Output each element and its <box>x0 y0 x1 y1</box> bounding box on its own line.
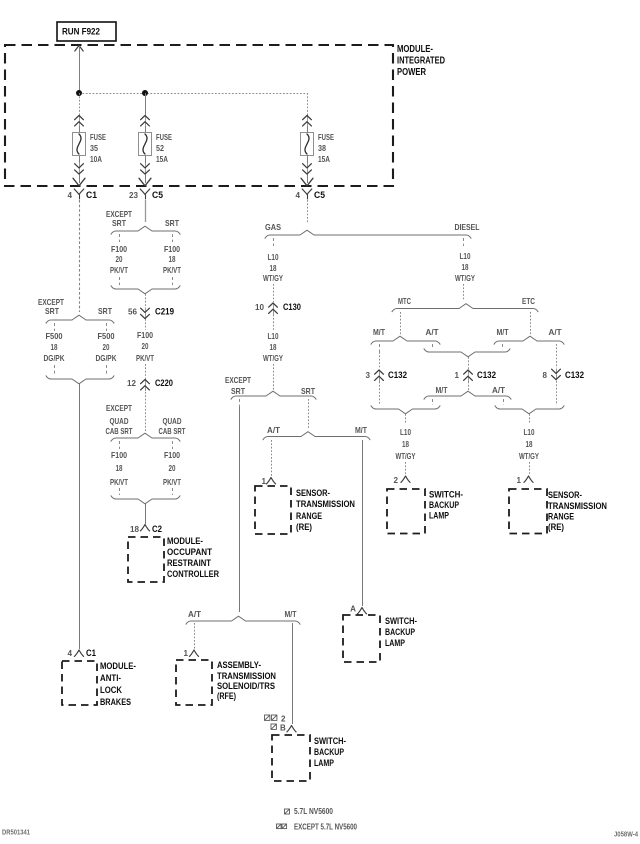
svg-text:OCCUPANT: OCCUPANT <box>167 547 212 558</box>
svg-text:4: 4 <box>295 191 300 200</box>
svg-text:15A: 15A <box>156 155 168 164</box>
svg-text:SRT: SRT <box>98 307 112 316</box>
svg-text:A/T: A/T <box>188 610 201 619</box>
svg-text:C132: C132 <box>477 370 496 381</box>
svg-text:BACKUP: BACKUP <box>429 500 459 511</box>
svg-text:MODULE-: MODULE- <box>167 536 203 547</box>
svg-text:52: 52 <box>156 144 164 153</box>
svg-text:LOCK: LOCK <box>100 685 122 696</box>
svg-text:18: 18 <box>526 440 533 449</box>
svg-text:F500: F500 <box>98 332 115 341</box>
svg-text:56: 56 <box>128 308 138 317</box>
svg-text:L10: L10 <box>460 252 471 261</box>
svg-text:M/T: M/T <box>355 426 367 435</box>
svg-text:10A: 10A <box>90 155 102 164</box>
svg-text:SRT: SRT <box>165 219 179 228</box>
svg-text:PK/VT: PK/VT <box>163 478 181 487</box>
svg-text:ASSEMBLY-: ASSEMBLY- <box>217 660 261 671</box>
svg-text:18: 18 <box>462 263 469 272</box>
svg-text:3: 3 <box>365 371 370 380</box>
svg-text:LAMP: LAMP <box>314 758 334 769</box>
svg-text:SRT: SRT <box>301 387 315 396</box>
svg-text:RANGE: RANGE <box>548 512 574 523</box>
svg-text:18: 18 <box>169 255 176 264</box>
svg-text:F500: F500 <box>46 332 63 341</box>
svg-text:20: 20 <box>103 343 110 352</box>
svg-text:SRT: SRT <box>112 219 126 228</box>
svg-text:TRANSMISSION: TRANSMISSION <box>548 501 607 512</box>
svg-text:4: 4 <box>67 191 72 200</box>
svg-text:20: 20 <box>142 342 149 351</box>
svg-text:FUSE: FUSE <box>318 133 334 142</box>
svg-text:L10: L10 <box>268 253 279 262</box>
svg-text:20: 20 <box>169 464 176 473</box>
svg-text:WT/GY: WT/GY <box>519 452 539 461</box>
svg-text:SRT: SRT <box>45 307 59 316</box>
svg-text:B: B <box>280 724 286 733</box>
svg-text:SWITCH-: SWITCH- <box>429 490 463 501</box>
svg-text:C2: C2 <box>152 524 162 535</box>
svg-text:EXCEPT: EXCEPT <box>225 376 251 385</box>
svg-text:DG/PK: DG/PK <box>44 354 65 363</box>
svg-text:MODULE-: MODULE- <box>100 661 136 672</box>
svg-text:2: 2 <box>393 476 398 485</box>
svg-text:WT/GY: WT/GY <box>263 274 283 283</box>
svg-text:RANGE: RANGE <box>296 511 322 522</box>
svg-text:A/T: A/T <box>492 386 505 395</box>
svg-text:ANTI-: ANTI- <box>100 673 121 684</box>
svg-text:DR501341: DR501341 <box>2 830 30 837</box>
svg-text:12: 12 <box>127 379 137 388</box>
svg-text:A/T: A/T <box>426 328 439 337</box>
svg-text:10: 10 <box>255 303 265 312</box>
svg-text:20: 20 <box>116 255 123 264</box>
svg-text:LAMP: LAMP <box>429 511 449 522</box>
svg-text:2: 2 <box>281 715 286 724</box>
svg-text:EXCEPT: EXCEPT <box>106 210 132 219</box>
svg-text:FUSE: FUSE <box>90 133 106 142</box>
svg-text:BACKUP: BACKUP <box>385 627 415 638</box>
svg-text:ETC: ETC <box>522 297 535 306</box>
svg-text:1: 1 <box>516 476 521 485</box>
svg-text:SWITCH-: SWITCH- <box>314 736 346 747</box>
svg-text:RUN F922: RUN F922 <box>62 27 100 37</box>
svg-text:L10: L10 <box>400 428 411 437</box>
svg-text:C1: C1 <box>86 648 97 659</box>
svg-text:M/T: M/T <box>436 386 448 395</box>
svg-text:(RE): (RE) <box>548 522 564 533</box>
svg-text:C5: C5 <box>314 190 326 201</box>
svg-text:A/T: A/T <box>549 328 562 337</box>
svg-text:5.7L NV5600: 5.7L NV5600 <box>294 807 333 816</box>
svg-text:18: 18 <box>116 464 123 473</box>
svg-text:GAS: GAS <box>265 223 282 232</box>
svg-text:QUAD: QUAD <box>110 417 129 426</box>
svg-text:F100: F100 <box>164 451 180 460</box>
svg-text:A: A <box>350 605 356 614</box>
svg-text:C132: C132 <box>565 370 584 381</box>
svg-text:SRT: SRT <box>231 387 245 396</box>
svg-text:1: 1 <box>261 477 266 486</box>
svg-text:MODULE-: MODULE- <box>397 44 433 55</box>
svg-text:WT/GY: WT/GY <box>455 274 475 283</box>
svg-text:FUSE: FUSE <box>156 133 172 142</box>
svg-text:LAMP: LAMP <box>385 638 405 649</box>
svg-text:18: 18 <box>270 264 277 273</box>
svg-text:18: 18 <box>270 343 277 352</box>
svg-text:EXCEPT 5.7L NV5600: EXCEPT 5.7L NV5600 <box>294 823 357 832</box>
svg-text:QUAD: QUAD <box>163 417 182 426</box>
svg-text:CAB SRT: CAB SRT <box>106 427 133 436</box>
svg-text:WT/GY: WT/GY <box>263 354 283 363</box>
svg-text:DIESEL: DIESEL <box>455 223 480 232</box>
svg-text:TRANSMISSION: TRANSMISSION <box>296 499 355 510</box>
svg-text:4: 4 <box>67 649 72 658</box>
svg-text:C220: C220 <box>155 378 173 389</box>
svg-text:15A: 15A <box>318 155 330 164</box>
svg-text:INTEGRATED: INTEGRATED <box>397 56 445 67</box>
svg-text:8: 8 <box>542 371 547 380</box>
svg-text:PK/VT: PK/VT <box>110 266 128 275</box>
svg-text:PK/VT: PK/VT <box>136 354 154 363</box>
svg-text:L10: L10 <box>268 332 279 341</box>
svg-text:A/T: A/T <box>267 426 280 435</box>
svg-text:38: 38 <box>318 144 326 153</box>
svg-text:BRAKES: BRAKES <box>100 697 131 708</box>
svg-text:C130: C130 <box>283 302 301 313</box>
svg-text:SWITCH-: SWITCH- <box>385 616 417 627</box>
svg-text:POWER: POWER <box>397 67 427 78</box>
svg-text:M/T: M/T <box>497 328 509 337</box>
svg-text:35: 35 <box>90 144 98 153</box>
svg-text:EXCEPT: EXCEPT <box>106 404 132 413</box>
svg-text:EXCEPT: EXCEPT <box>38 298 64 307</box>
svg-text:23: 23 <box>129 191 139 200</box>
svg-text:PK/VT: PK/VT <box>110 478 128 487</box>
svg-text:1: 1 <box>183 649 188 658</box>
svg-text:WT/GY: WT/GY <box>396 452 416 461</box>
svg-text:C1: C1 <box>86 190 98 201</box>
svg-text:J058W-4: J058W-4 <box>614 832 638 839</box>
svg-text:F100: F100 <box>111 245 127 254</box>
svg-text:F100: F100 <box>137 331 153 340</box>
svg-text:RESTRAINT: RESTRAINT <box>167 558 211 569</box>
svg-text:BACKUP: BACKUP <box>314 747 344 758</box>
svg-text:M/T: M/T <box>373 328 385 337</box>
svg-text:18: 18 <box>402 440 409 449</box>
svg-text:MTC: MTC <box>398 297 411 306</box>
svg-text:F100: F100 <box>164 245 180 254</box>
svg-text:CAB SRT: CAB SRT <box>159 427 186 436</box>
svg-text:CONTROLLER: CONTROLLER <box>167 569 219 580</box>
svg-text:M/T: M/T <box>285 610 297 619</box>
svg-text:L10: L10 <box>524 428 535 437</box>
svg-text:(RFE): (RFE) <box>217 691 236 702</box>
svg-text:F100: F100 <box>111 451 127 460</box>
svg-text:SENSOR-: SENSOR- <box>548 490 582 501</box>
svg-text:DG/PK: DG/PK <box>96 354 117 363</box>
svg-text:1: 1 <box>454 371 459 380</box>
svg-text:18: 18 <box>51 343 58 352</box>
svg-text:C219: C219 <box>155 307 174 318</box>
svg-text:(RE): (RE) <box>296 522 312 533</box>
svg-text:SENSOR-: SENSOR- <box>296 488 330 499</box>
svg-text:PK/VT: PK/VT <box>163 266 181 275</box>
svg-text:C5: C5 <box>152 190 164 201</box>
svg-text:C132: C132 <box>388 370 407 381</box>
svg-text:18: 18 <box>130 525 140 534</box>
